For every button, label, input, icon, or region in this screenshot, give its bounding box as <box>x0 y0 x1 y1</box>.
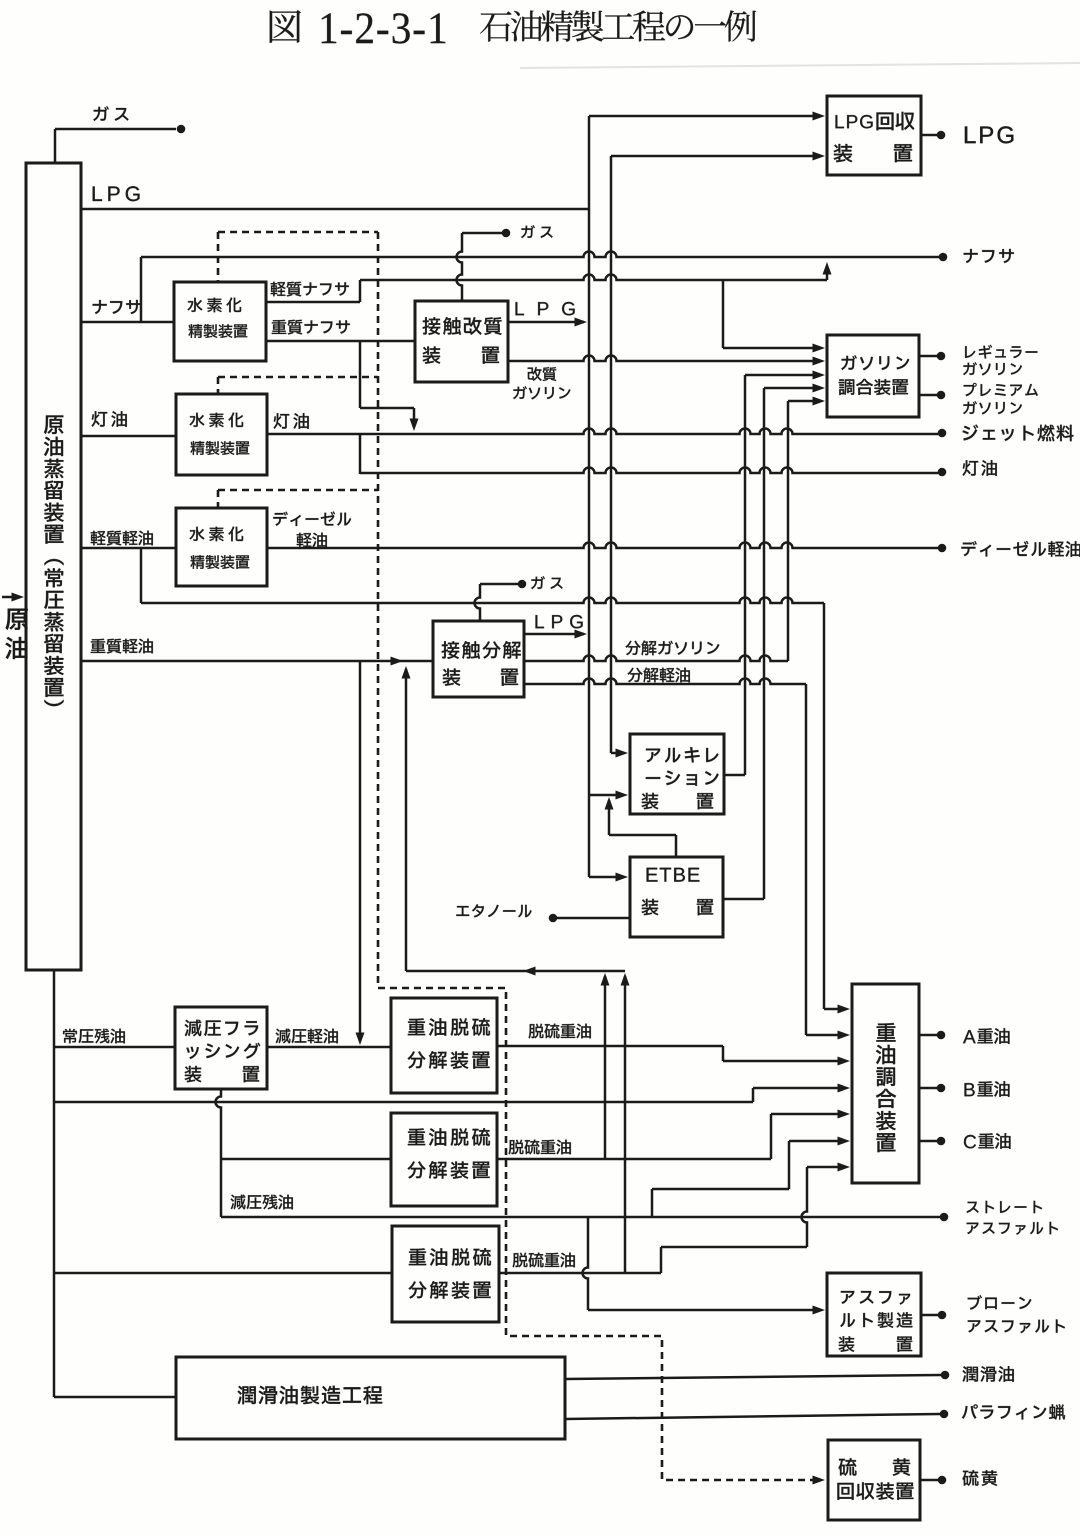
hydrotreater 2 水素化精製装置 <box>176 394 267 475</box>
heavy oil desulfurizer 1 重油脱硫分解装置 <box>391 998 497 1093</box>
riser A to recycle line <box>604 976 607 1159</box>
label 脱硫重油 2 <box>509 1140 524 1155</box>
label ガス cracker <box>531 576 545 589</box>
dashed drop into HT2 <box>217 377 220 393</box>
label 分解ガソリン <box>625 641 640 655</box>
asphalt 置 <box>897 1337 912 1352</box>
label 原油 <box>6 609 28 630</box>
黄 text <box>893 1458 910 1476</box>
desulfurized oil 2 脱硫重油 <box>497 1158 771 1161</box>
label 重質軽油 <box>91 639 106 653</box>
heavy oil desulfurizer 2 重油脱硫分解装置 <box>391 1113 497 1206</box>
label 分解軽油 <box>627 668 642 682</box>
ds1 text line1 <box>408 1018 425 1035</box>
staircase to heavy blender input6 <box>651 1189 654 1217</box>
label B重油 <box>965 1083 975 1096</box>
faint scan streak <box>520 63 1080 68</box>
diesel line ディーゼル軽油 <box>267 543 938 549</box>
gas terminal dot <box>177 125 186 134</box>
label プレミアム <box>964 383 977 396</box>
reformer gas line <box>457 233 463 301</box>
B heavy oil line <box>919 1087 937 1090</box>
paraffin wax line <box>565 1414 940 1419</box>
label LPG <box>93 186 102 200</box>
hydrotreater 3 水素化精製装置 <box>176 508 267 586</box>
硫 text <box>839 1458 857 1476</box>
kerosene output dot <box>938 468 947 477</box>
label ナフサ output <box>964 249 978 263</box>
LPG output dot <box>937 131 946 140</box>
アスファ text <box>841 1291 854 1304</box>
dashed header 3 <box>218 489 378 492</box>
gasoline blending unit ガソリン調合装置 <box>827 335 919 417</box>
ETBE text <box>647 868 658 882</box>
label ナフサ <box>93 300 107 314</box>
潤滑油製造工程 text <box>238 1386 256 1404</box>
label アスファルト 2 <box>968 1320 981 1332</box>
premium gasoline line <box>919 394 937 397</box>
premium output dot <box>937 391 946 400</box>
desulfurized oil 3 脱硫重油 <box>499 1272 661 1275</box>
cracker 装 <box>443 668 461 685</box>
hydrotreater 1 水素化精製装置 <box>174 282 266 361</box>
atmospheric residue feed 常圧残油 <box>54 1046 175 1049</box>
alkylation unit アルキレーション装置 <box>630 734 724 814</box>
label LPG reformer <box>516 302 524 315</box>
label 軽質ナフサ <box>271 282 286 297</box>
desulfurized oil 1 脱硫重油 <box>497 1045 723 1048</box>
naphtha feed to hydrotreater 1 <box>81 321 174 324</box>
heavy gas oil feed 重質軽油 <box>81 660 433 663</box>
label 灯油 feed <box>92 411 108 427</box>
alky 置 <box>697 793 713 809</box>
label パラフィン蝋 <box>962 1404 978 1418</box>
heavy oil blending unit 重油調合装置 <box>852 984 919 1183</box>
HT1 text line1 <box>187 298 202 312</box>
sulfur output dot <box>938 1476 947 1485</box>
desulfurized oil recycle riser <box>405 669 408 971</box>
調合装置 text <box>839 379 854 395</box>
label 軽質軽油 <box>91 531 106 546</box>
dashed hydrogen header top <box>218 231 378 234</box>
gas line from CDU top <box>54 129 57 163</box>
dashed header 2 <box>218 376 378 379</box>
alky 装 <box>642 793 659 809</box>
cracker LPG to bus1 <box>524 633 584 636</box>
装 text <box>834 144 853 162</box>
long residue line to heavy blender <box>54 1101 753 1104</box>
light naphtha drop to gasoline blender <box>722 280 725 348</box>
ETBE unit ETBE装置 <box>630 857 723 937</box>
C heavy oil line <box>919 1140 937 1143</box>
blown asphalt line <box>921 1314 938 1317</box>
catalytic cracker 接触分解装置 <box>433 621 524 697</box>
label エタノール <box>456 906 469 916</box>
dashed drop into HT3 <box>217 490 220 507</box>
C重油 output dot <box>937 1137 946 1146</box>
reformer gas dot <box>502 229 511 238</box>
label 常圧残油 <box>63 1029 77 1044</box>
vacuum gas oil 減圧軽油 <box>267 1046 391 1049</box>
riser B to recycle line <box>624 976 627 1273</box>
ds3 text line2 <box>409 1281 427 1298</box>
light naphtha line 軽質ナフサ <box>266 301 360 304</box>
label C重油 <box>964 1135 976 1148</box>
label ジェット燃料 <box>963 424 979 440</box>
LPG product line <box>921 134 937 137</box>
kerosene feed 灯油 <box>81 435 176 438</box>
asphalt 装 <box>839 1336 855 1351</box>
dashed main run to sulfur plant <box>378 232 820 1480</box>
ッシング text <box>186 1047 198 1059</box>
lube oil production 潤滑油製造工程 <box>176 1357 565 1439</box>
label 減圧軽油 <box>276 1029 291 1044</box>
label ブローン <box>968 1295 982 1310</box>
cracker 置 <box>501 669 518 686</box>
ETBE product riser to gasoline blender <box>723 898 764 901</box>
label 硫黄 <box>963 1470 979 1486</box>
label LPG cracker <box>536 615 544 628</box>
diesel output dot <box>938 544 947 553</box>
ETBE raffinate to alkylation <box>675 835 678 857</box>
HT2 text line2 <box>190 441 204 455</box>
lube output dot <box>941 1371 950 1380</box>
label 改質 <box>528 367 542 381</box>
アルキレ text <box>646 749 660 763</box>
label 灯油 output <box>963 460 979 476</box>
HT3 text line2 <box>190 555 204 569</box>
reformate line 改質ガソリン to gasoline blender <box>508 356 814 361</box>
ds3 text line1 <box>409 1248 426 1265</box>
CDU vertical label <box>44 415 63 434</box>
branch down to asphalt unit <box>583 1217 589 1310</box>
ds1 text line2 <box>408 1051 426 1068</box>
title 図 1-2-3-1 石油精製工程の一例 <box>270 10 301 43</box>
label 灯油 out <box>274 413 290 429</box>
kerosene/jet line <box>267 429 938 434</box>
catalytic reformer 接触改質装置 <box>415 301 508 382</box>
lube feed <box>54 1396 176 1399</box>
bus1 into ETBE <box>589 876 623 879</box>
HT1 text line2 <box>188 324 202 338</box>
ds2 text line1 <box>408 1128 425 1145</box>
label ディーゼル軽油 output <box>961 541 976 556</box>
residue feed to desulfurizer3 <box>54 1272 392 1275</box>
vacuum flashing unit 減圧フラッシング装置 <box>175 1007 267 1089</box>
label ガス reformer <box>521 225 535 238</box>
jet fuel output dot <box>938 429 947 438</box>
crude distillation unit 原油蒸留装置（常圧蒸留装置） <box>26 163 81 970</box>
regular output dot <box>937 352 946 361</box>
paraffin output dot <box>940 1410 949 1419</box>
kerosene product branch <box>359 434 362 474</box>
naphtha riser <box>140 257 143 322</box>
label A重油 <box>963 1030 976 1043</box>
LPG recovery unit LPG回収装置 <box>827 96 921 175</box>
LPG line from CDU <box>81 208 589 211</box>
sulfur line <box>920 1479 938 1482</box>
label 軽油 <box>297 533 312 548</box>
label ガソリン2 <box>963 401 977 414</box>
light gas oil bypass to heavy blender <box>140 548 143 603</box>
HT3 text line1 <box>189 527 204 541</box>
naphtha output dot <box>939 253 948 262</box>
label ストレート <box>967 1202 979 1213</box>
reformer 置 <box>482 347 499 364</box>
heavy oil desulfurizer 3 重油脱硫分解装置 <box>392 1226 499 1322</box>
label 潤滑油 <box>962 1366 978 1382</box>
cracked gas oil 分解軽油 <box>524 679 806 685</box>
重油調合装置 vertical text <box>876 1023 895 1042</box>
reformer LPG to bus1 <box>508 321 584 324</box>
straight asphalt output dot <box>940 1213 949 1222</box>
ルト製造 text <box>840 1313 855 1327</box>
ethanol dot <box>549 914 558 923</box>
ETBE 装 text <box>642 899 659 915</box>
blown asphalt output dot <box>938 1311 947 1320</box>
flasher 装 <box>185 1066 202 1082</box>
naphtha product line to output <box>141 252 939 257</box>
置 text <box>894 144 912 162</box>
flasher 置 <box>243 1066 259 1082</box>
B重油 output dot <box>937 1084 946 1093</box>
label レギュラー <box>965 346 975 358</box>
vertical bus 1 (LPG collector) <box>588 116 591 877</box>
label 脱硫重油 1 <box>529 1024 544 1039</box>
減圧フラ text <box>185 1020 202 1037</box>
crude oil input 原油 <box>2 596 17 599</box>
label 重質ナフサ <box>272 320 287 334</box>
label LPG output <box>965 127 976 144</box>
branch feed to desulfurizer2 <box>221 1158 391 1161</box>
dashed arrow into sulfur unit <box>813 1476 826 1485</box>
A重油 output dot <box>937 1031 946 1040</box>
HT2 text line1 <box>189 413 204 427</box>
dashed drop into HT1 <box>217 232 220 281</box>
cracker gas dot <box>518 580 527 589</box>
ETBE 置 text <box>697 899 713 915</box>
asphalt production unit アスファルト製造装置 <box>827 1273 921 1356</box>
light gas oil feed 軽質軽油 <box>81 547 176 550</box>
label ガソリン <box>963 362 977 375</box>
alkylate riser to gasoline blender <box>724 774 745 777</box>
cracked gasoline 分解ガソリン <box>524 656 788 662</box>
ーション text <box>646 777 660 779</box>
bus1 branch to alkylation <box>589 794 623 797</box>
A heavy oil line <box>919 1034 937 1037</box>
light naphtha join to naphtha line <box>826 266 829 280</box>
sulfur recovery unit 硫黄回収装置 <box>828 1440 920 1520</box>
vertical bus 2 <box>610 156 613 753</box>
reformer text line1 <box>423 317 440 335</box>
cracker text line1 <box>442 641 459 659</box>
heavy naphtha line 重質ナフサ <box>266 340 415 343</box>
reformer 装 <box>423 346 441 363</box>
cracker gas line <box>475 584 481 621</box>
residue strand from CDU bottom <box>53 970 56 1397</box>
flasher bottoms 減圧残油 line <box>216 1089 221 1217</box>
heavy gas oil branch down to desulfurizer feed <box>359 661 362 1040</box>
heavy naphtha branch to jet line <box>359 341 362 408</box>
ガソリン text <box>841 355 857 370</box>
label ガス <box>93 106 109 121</box>
lube oil line <box>565 1375 941 1379</box>
regular gasoline line <box>919 355 937 358</box>
LPG回収 text <box>836 115 844 128</box>
label 減圧残油 <box>231 1195 246 1210</box>
ds2 text line2 <box>408 1161 426 1178</box>
label 脱硫重油 3 <box>513 1253 528 1268</box>
回収装置 text <box>837 1483 853 1500</box>
label アスファルト <box>967 1223 979 1234</box>
label ディーゼル <box>273 512 287 526</box>
label ガソリン <box>513 386 527 399</box>
